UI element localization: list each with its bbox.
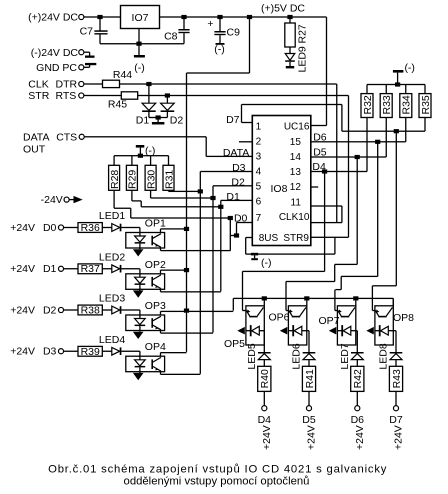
svg-text:8US: 8US — [259, 233, 279, 244]
svg-text:R30: R30 — [145, 170, 157, 189]
svg-text:R40: R40 — [259, 369, 271, 388]
svg-text:D1: D1 — [226, 191, 240, 203]
svg-text:+: + — [207, 18, 213, 30]
svg-text:4: 4 — [256, 167, 262, 178]
svg-text:STR9: STR9 — [283, 233, 309, 244]
svg-text:3: 3 — [256, 152, 262, 163]
svg-text:2: 2 — [256, 137, 262, 148]
svg-text:DATA: DATA — [223, 147, 249, 159]
svg-text:CLK: CLK — [28, 78, 48, 90]
svg-text:D3: D3 — [43, 346, 57, 358]
svg-text:(-): (-) — [145, 145, 156, 157]
svg-text:12: 12 — [290, 182, 302, 193]
svg-text:D7: D7 — [389, 414, 403, 426]
svg-text:LED2: LED2 — [99, 251, 125, 263]
svg-text:+24V: +24V — [10, 263, 35, 275]
svg-text:D0: D0 — [234, 213, 248, 225]
svg-text:D5: D5 — [313, 147, 327, 159]
svg-text:R42: R42 — [352, 369, 364, 388]
svg-text:D1: D1 — [136, 114, 150, 126]
svg-text:C9: C9 — [227, 27, 241, 39]
svg-text:(-): (-) — [134, 62, 145, 74]
svg-text:LED8: LED8 — [378, 343, 390, 369]
svg-text:OP5: OP5 — [224, 338, 245, 350]
svg-text:(+)5V DC: (+)5V DC — [261, 3, 305, 15]
svg-text:Obr.č.01 schéma zapojení vstup: Obr.č.01 schéma zapojení vstupů IO CD 40… — [48, 464, 387, 476]
svg-text:R33: R33 — [381, 95, 393, 114]
svg-text:+24V: +24V — [10, 222, 35, 234]
svg-text:11: 11 — [291, 197, 302, 208]
svg-text:R34: R34 — [401, 95, 413, 114]
svg-text:+24V: +24V — [10, 346, 35, 358]
svg-text:LED9: LED9 — [297, 46, 309, 72]
svg-text:1: 1 — [256, 122, 262, 133]
svg-text:R39: R39 — [81, 346, 100, 358]
svg-text:R28: R28 — [109, 170, 121, 189]
svg-text:LED4: LED4 — [99, 334, 125, 346]
svg-text:(-): (-) — [214, 44, 225, 56]
svg-text:D3: D3 — [232, 162, 246, 174]
svg-text:UC16: UC16 — [284, 122, 310, 133]
svg-text:7: 7 — [256, 213, 262, 224]
svg-text:DTR: DTR — [56, 78, 78, 90]
svg-text:IO8: IO8 — [271, 183, 288, 195]
svg-text:R31: R31 — [163, 170, 175, 189]
svg-text:OP4: OP4 — [145, 341, 166, 353]
svg-text:STR: STR — [28, 90, 49, 102]
svg-text:OP3: OP3 — [145, 300, 166, 312]
svg-text:6: 6 — [256, 197, 262, 208]
svg-text:R29: R29 — [127, 170, 139, 189]
svg-text:(+)24V DC: (+)24V DC — [28, 12, 78, 24]
svg-text:C7: C7 — [80, 25, 94, 37]
svg-text:C8: C8 — [164, 30, 178, 42]
svg-text:R37: R37 — [81, 263, 100, 275]
svg-text:13: 13 — [290, 167, 302, 178]
svg-text:OP6: OP6 — [269, 311, 290, 323]
svg-text:R41: R41 — [304, 369, 316, 388]
svg-text:D6: D6 — [313, 132, 327, 144]
svg-text:15: 15 — [290, 137, 302, 148]
svg-text:OUT: OUT — [23, 144, 46, 156]
svg-text:(-): (-) — [261, 257, 272, 269]
svg-text:D2: D2 — [231, 176, 245, 188]
svg-text:GND PC: GND PC — [36, 62, 77, 74]
svg-text:DATA: DATA — [23, 131, 49, 143]
svg-text:IO7: IO7 — [132, 12, 149, 24]
svg-text:14: 14 — [290, 152, 302, 163]
svg-text:LED6: LED6 — [291, 343, 303, 369]
svg-text:+24V: +24V — [10, 304, 35, 316]
svg-text:LED1: LED1 — [99, 210, 125, 222]
svg-text:R44: R44 — [113, 69, 132, 81]
svg-text:D6: D6 — [351, 414, 365, 426]
svg-text:OP1: OP1 — [145, 218, 166, 230]
svg-text:LED7: LED7 — [339, 343, 351, 369]
svg-text:+24V: +24V — [306, 425, 318, 450]
svg-text:+24V: +24V — [393, 425, 405, 450]
svg-text:D4: D4 — [258, 414, 272, 426]
svg-text:(-)24V DC: (-)24V DC — [31, 47, 79, 59]
svg-text:(-): (-) — [404, 62, 415, 74]
svg-text:D7: D7 — [226, 114, 240, 126]
svg-text:OP2: OP2 — [145, 259, 166, 271]
svg-text:5: 5 — [256, 182, 262, 193]
svg-text:R32: R32 — [362, 95, 374, 114]
svg-text:+24V: +24V — [354, 425, 366, 450]
svg-text:OP8: OP8 — [393, 312, 414, 324]
svg-text:OP7: OP7 — [319, 315, 340, 327]
svg-text:R27: R27 — [297, 24, 309, 43]
svg-text:D0: D0 — [43, 222, 57, 234]
svg-text:D1: D1 — [43, 263, 57, 275]
svg-text:D5: D5 — [302, 414, 316, 426]
svg-text:LED3: LED3 — [99, 293, 125, 305]
svg-text:R43: R43 — [391, 369, 403, 388]
svg-text:R35: R35 — [420, 95, 432, 114]
svg-text:D2: D2 — [43, 304, 57, 316]
svg-text:LED5: LED5 — [246, 343, 258, 369]
svg-text:+24V: +24V — [261, 425, 273, 450]
svg-text:R38: R38 — [81, 305, 100, 317]
svg-text:oddělenými vstupy pomocí optoč: oddělenými vstupy pomocí optočlenů — [124, 476, 310, 488]
svg-text:-24V: -24V — [41, 194, 63, 206]
svg-text:R36: R36 — [81, 222, 100, 234]
svg-text:CTS: CTS — [56, 131, 77, 143]
svg-text:D2: D2 — [170, 114, 184, 126]
svg-text:RTS: RTS — [56, 90, 77, 102]
svg-text:R45: R45 — [108, 98, 127, 110]
svg-text:CLK10: CLK10 — [279, 212, 310, 223]
